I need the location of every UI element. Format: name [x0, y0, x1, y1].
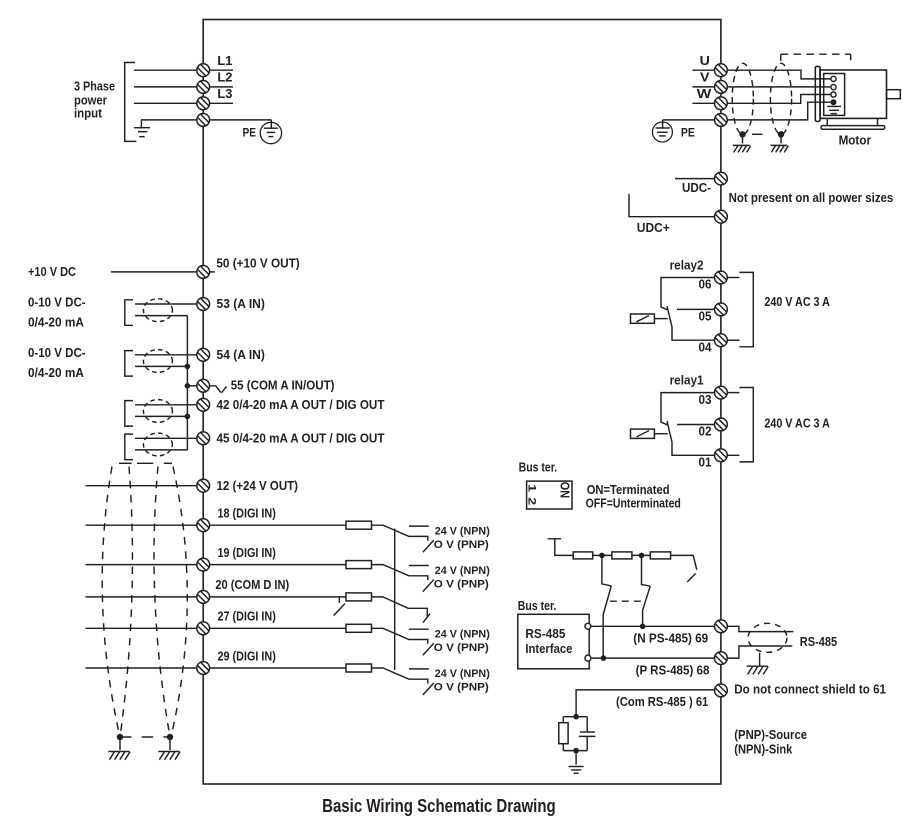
svg-text:05: 05	[699, 310, 712, 324]
svg-text:01: 01	[699, 456, 712, 470]
dashed link between screens	[120, 736, 171, 738]
termination switch right	[642, 555, 651, 626]
terminal 04	[699, 334, 728, 355]
svg-text:2: 2	[526, 497, 538, 505]
shield drain dashed link	[752, 133, 763, 135]
motor cable shield ellipse 2	[770, 63, 791, 134]
PE earth circle left	[243, 120, 282, 144]
svg-text:O V (PNP): O V (PNP)	[434, 682, 489, 694]
svg-text:L3: L3	[217, 87, 232, 101]
svg-text:PE: PE	[681, 125, 695, 139]
terminal PE left	[197, 114, 271, 127]
svg-text:0/4-20 mA: 0/4-20 mA	[28, 366, 84, 380]
svg-text:24 V (NPN): 24 V (NPN)	[435, 565, 490, 577]
junction N	[640, 624, 646, 630]
RC termination to ground	[559, 717, 596, 765]
svg-text:24 V (NPN): 24 V (NPN)	[435, 629, 490, 641]
motor cable shield ellipse 1	[732, 63, 753, 134]
PE earth circle right	[652, 120, 695, 142]
svg-text:O V (PNP): O V (PNP)	[434, 578, 489, 590]
wire 61	[576, 690, 714, 717]
wire PE input	[141, 119, 197, 121]
labels 29	[434, 668, 490, 694]
input network 27	[210, 624, 434, 655]
svg-text:06: 06	[699, 278, 712, 292]
svg-text:OFF=Unterminated: OFF=Unterminated	[586, 497, 681, 511]
svg-text:1: 1	[526, 484, 538, 492]
junction RC top	[573, 714, 579, 720]
terminal UDC-	[675, 172, 727, 195]
terminal L2	[197, 71, 233, 94]
svg-text:UDC+: UDC+	[637, 221, 670, 235]
terminal L1	[197, 54, 233, 77]
terminal 01	[699, 449, 728, 470]
terminal 53	[197, 297, 265, 311]
svg-text:UDC-: UDC-	[682, 181, 711, 195]
junction RC bottom	[573, 748, 579, 754]
wire W to motor	[727, 95, 831, 104]
resistor R2	[612, 552, 632, 559]
terminal W	[692, 87, 727, 110]
svg-text:04: 04	[699, 340, 712, 354]
svg-text:42 0/4-20 mA A OUT / DIG OUT: 42 0/4-20 mA A OUT / DIG OUT	[217, 398, 385, 412]
svg-text:240 V AC 3 A: 240 V AC 3 A	[764, 295, 830, 309]
svg-text:O V (PNP): O V (PNP)	[434, 539, 489, 551]
svg-text:24 V (NPN): 24 V (NPN)	[435, 668, 490, 680]
label: 3 Phase power input	[74, 78, 115, 120]
svg-text:V: V	[700, 71, 710, 85]
junction B	[639, 553, 645, 559]
svg-text:55 (COM A IN/OUT): 55 (COM A IN/OUT)	[231, 379, 335, 393]
svg-text:240 V AC 3 A: 240 V AC 3 A	[764, 417, 830, 431]
wire L2	[134, 86, 197, 88]
terminal V	[692, 71, 727, 94]
screen node right	[158, 734, 180, 760]
pin N	[585, 623, 591, 629]
DIP switch S1	[526, 481, 573, 509]
ground RC	[569, 767, 584, 774]
junction P	[601, 655, 607, 661]
label 0-10V DC (54)	[28, 346, 86, 380]
terminal 03	[699, 386, 728, 407]
shielded pair 45	[125, 433, 197, 460]
cable lens left	[102, 467, 132, 738]
junction A	[599, 553, 605, 559]
shielded pair 54	[125, 350, 197, 377]
svg-text:12 (+24 V OUT): 12 (+24 V OUT)	[217, 479, 299, 493]
relay K2 rating bracket	[727, 272, 753, 346]
terminal 27	[197, 610, 276, 635]
terminal 45	[197, 431, 385, 445]
shielded pair 53	[125, 299, 197, 326]
wire L3	[134, 102, 197, 104]
shield drain	[747, 653, 769, 675]
svg-text:(NPN)-Sink: (NPN)-Sink	[734, 742, 792, 756]
svg-text:L1: L1	[217, 54, 232, 68]
screen node left	[108, 734, 130, 760]
terminal 42	[197, 398, 385, 412]
wire P	[591, 657, 715, 659]
svg-text:PE: PE	[243, 125, 257, 139]
labels 18	[434, 525, 490, 551]
terminal 02	[699, 418, 728, 439]
terminal 12	[197, 479, 298, 493]
shield drain node 2	[771, 131, 789, 152]
relay K2 contacts and coil	[631, 278, 717, 341]
common bus wire	[186, 316, 188, 450]
svg-text:Bus ter.: Bus ter.	[518, 599, 557, 613]
svg-text:Not present on all power sizes: Not present on all power sizes	[729, 191, 894, 205]
drive enclosure box	[203, 20, 721, 785]
ganged link dashed	[610, 600, 643, 602]
terminal 05	[699, 303, 728, 324]
svg-text:53 (A IN): 53 (A IN)	[217, 297, 265, 311]
terminal 18	[197, 507, 276, 532]
svg-text:03: 03	[699, 393, 712, 407]
svg-text:RS-485: RS-485	[800, 635, 837, 649]
terminal 50	[197, 257, 300, 279]
svg-text:54 (A IN): 54 (A IN)	[217, 348, 265, 362]
labels 19	[434, 565, 490, 591]
terminal 29	[197, 649, 276, 674]
svg-text:input: input	[74, 105, 103, 120]
svg-text:L2: L2	[217, 71, 232, 85]
wire from 68	[727, 646, 792, 658]
input network 29	[210, 664, 434, 695]
svg-text:29 (DIGI IN): 29 (DIGI IN)	[218, 649, 276, 663]
wire from 69	[727, 626, 793, 631]
junction 54	[185, 364, 191, 370]
terminal PE right	[663, 114, 728, 127]
supply stub	[548, 539, 574, 556]
svg-text:ON: ON	[558, 482, 572, 498]
terminal 19	[197, 546, 276, 571]
svg-text:Basic Wiring Schematic Drawing: Basic Wiring Schematic Drawing	[322, 796, 556, 816]
terminal 06	[699, 271, 728, 292]
svg-text:0-10 V DC-: 0-10 V DC-	[28, 295, 86, 309]
cable sheath top dashes	[119, 462, 172, 464]
termination switch left	[602, 555, 611, 658]
svg-text:ON=Terminated: ON=Terminated	[587, 483, 670, 497]
wire PE to motor	[727, 102, 830, 120]
cable lens right	[154, 467, 187, 738]
svg-text:Do not connect shield to 61: Do not connect shield to 61	[734, 683, 886, 697]
svg-text:relay2: relay2	[670, 258, 704, 272]
svg-text:45 0/4-20 mA A OUT / DIG OUT: 45 0/4-20 mA A OUT / DIG OUT	[217, 431, 385, 445]
svg-text:W: W	[697, 87, 712, 101]
labels 27	[434, 629, 490, 655]
terminal UDC+	[629, 194, 727, 235]
svg-text:+10 V DC: +10 V DC	[28, 265, 76, 279]
RS-485 interface box	[518, 614, 589, 669]
cable shield ellipse	[748, 623, 787, 652]
relay K1 contacts and coil	[631, 393, 717, 456]
terminal U	[692, 54, 727, 77]
wire 12	[86, 485, 197, 487]
input network 20	[210, 593, 430, 623]
terminal L3	[197, 87, 233, 110]
ground input earth	[134, 120, 150, 137]
junction 55	[185, 383, 191, 389]
svg-text:24 V (NPN): 24 V (NPN)	[435, 525, 490, 537]
svg-text:50 (+10 V OUT): 50 (+10 V OUT)	[216, 257, 299, 271]
junction 42	[185, 414, 191, 420]
wire +10V	[111, 271, 197, 273]
resistor R1	[573, 552, 593, 559]
svg-text:relay1: relay1	[670, 373, 704, 387]
wire to 55	[187, 385, 196, 387]
wire U to motor	[727, 70, 831, 79]
svg-text:O V (PNP): O V (PNP)	[434, 642, 489, 654]
svg-text:0-10 V DC-: 0-10 V DC-	[28, 346, 86, 360]
wire and open switch right	[671, 555, 697, 582]
motor M1	[815, 66, 900, 129]
terminal 61	[715, 684, 728, 697]
wire	[593, 554, 612, 556]
svg-text:(Com RS-485 ) 61: (Com RS-485 ) 61	[616, 695, 708, 709]
terminal 68	[715, 652, 728, 665]
relay K1 rating bracket	[727, 388, 753, 462]
svg-text:20 (COM D IN): 20 (COM D IN)	[215, 578, 289, 592]
pin P	[585, 655, 591, 661]
svg-text:02: 02	[699, 425, 712, 439]
svg-text:RS-485: RS-485	[525, 627, 565, 641]
3-phase input bracket	[125, 63, 137, 142]
wire 29 left	[86, 667, 197, 669]
wire L1	[134, 69, 197, 71]
wire 27 left	[86, 627, 197, 629]
dashed cable marker bracket	[781, 54, 851, 61]
svg-text:0/4-20 mA: 0/4-20 mA	[28, 315, 84, 329]
wire N	[591, 625, 715, 627]
svg-text:Bus ter.: Bus ter.	[519, 461, 558, 475]
terminal 20	[197, 578, 289, 603]
wire	[632, 554, 650, 556]
wire 19 left	[86, 564, 197, 566]
wire 20 left	[86, 596, 197, 598]
svg-text:19 (DIGI IN): 19 (DIGI IN)	[218, 546, 276, 560]
svg-text:27 (DIGI IN): 27 (DIGI IN)	[218, 610, 276, 624]
digital common line	[394, 529, 396, 671]
svg-text:(PNP)-Source: (PNP)-Source	[734, 728, 807, 742]
svg-text:18 (DIGI IN): 18 (DIGI IN)	[218, 507, 276, 521]
terminal 55	[197, 379, 335, 393]
wire 18 left	[86, 524, 197, 526]
resistor R3	[650, 552, 670, 559]
svg-text:Motor: Motor	[839, 133, 871, 148]
input network 19	[210, 561, 434, 592]
shielded pair 42	[125, 400, 197, 427]
svg-text:3 Phase: 3 Phase	[74, 78, 115, 93]
terminal 54	[197, 348, 265, 362]
svg-text:Interface: Interface	[525, 642, 572, 656]
input network 18	[210, 521, 434, 552]
terminal 69	[715, 620, 728, 633]
wire V to motor	[727, 86, 831, 88]
label 0-10V DC (53)	[28, 295, 86, 329]
svg-text:(N PS-485) 69: (N PS-485) 69	[633, 632, 708, 646]
svg-text:(P RS-485) 68: (P RS-485) 68	[636, 664, 710, 678]
shield drain node 1	[733, 131, 751, 152]
svg-text:U: U	[700, 54, 710, 68]
